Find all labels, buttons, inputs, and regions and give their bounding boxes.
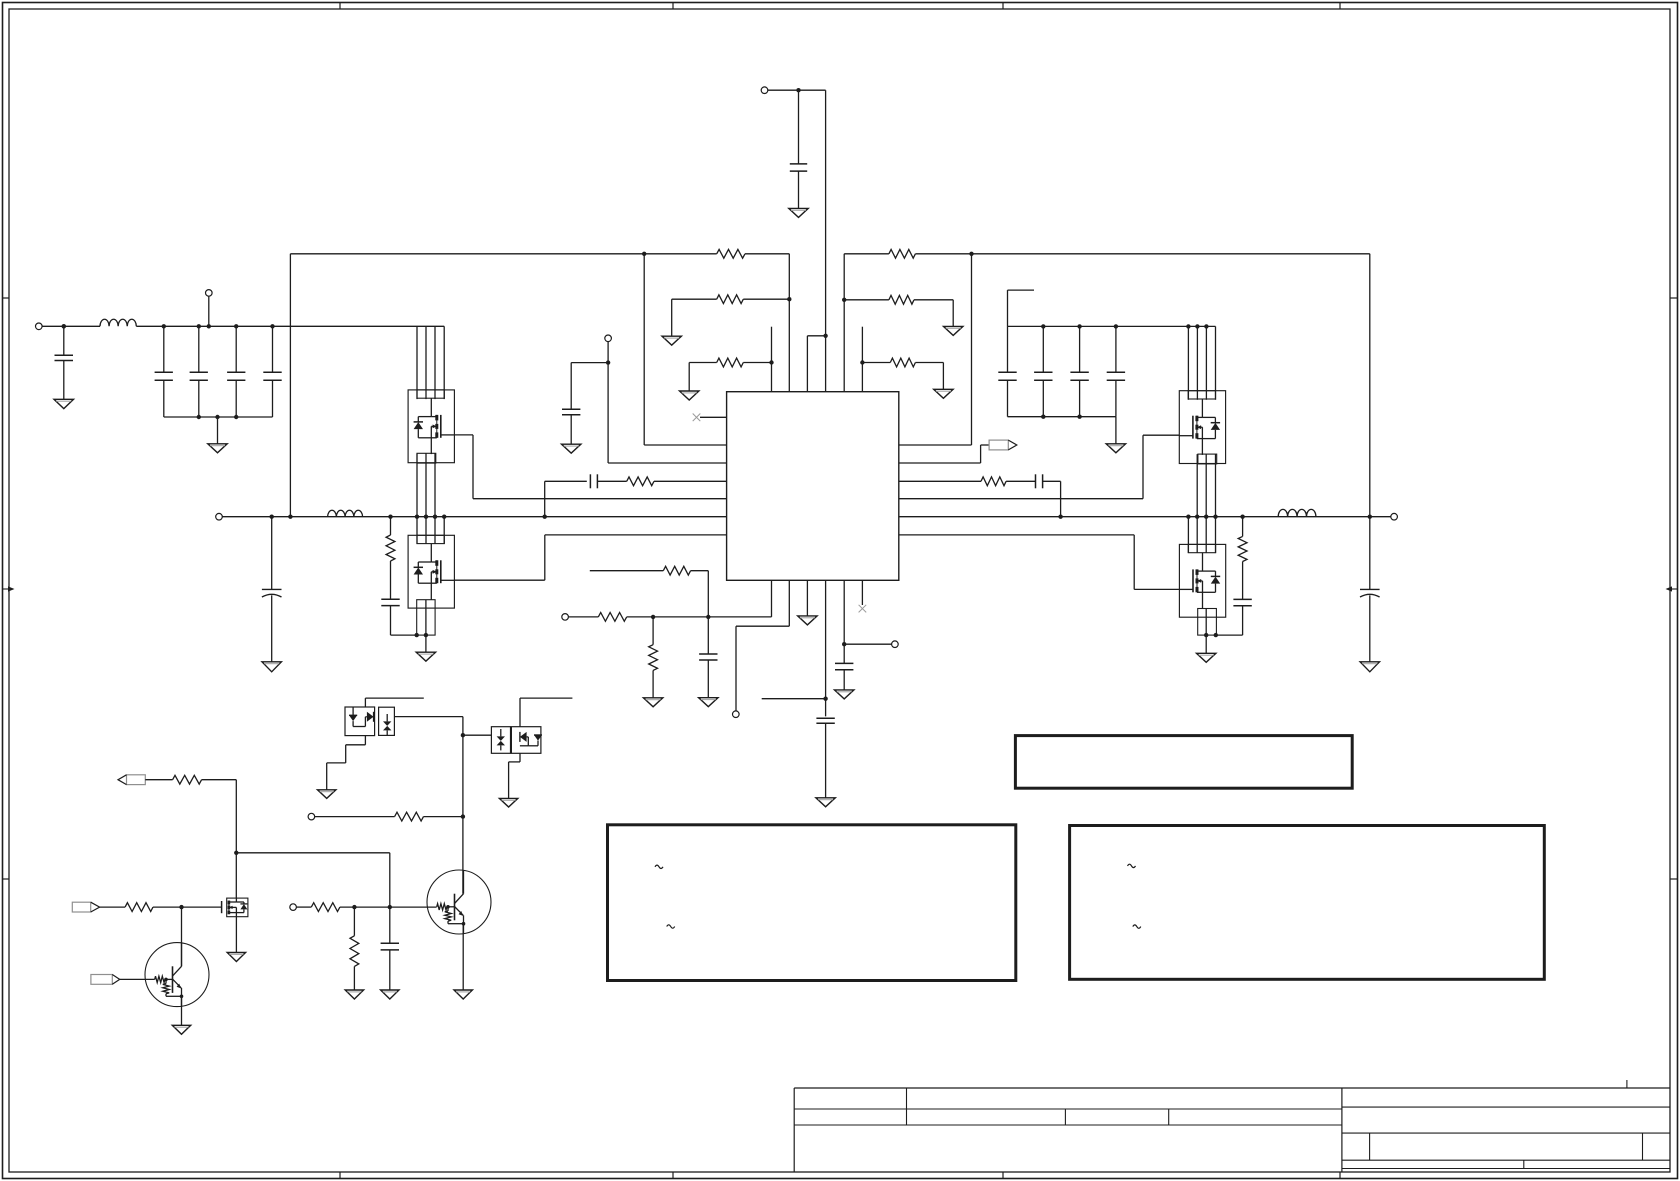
ground (below C-top) [789,208,808,217]
wire R to C right [1006,480,1036,482]
ground (right fet source) [1197,635,1216,662]
wire flag to R [145,779,172,781]
wire right bus stub [1008,290,1035,326]
wire step to pin t3 [807,336,825,392]
terminal (bus supply tap) [206,290,213,327]
node ref junction [606,360,610,364]
wire gate bottom-right [899,535,1180,590]
ground (R-b2) [345,990,363,999]
capacitor C-out-left (polarized) [262,517,282,662]
capacitor C-busL3 [227,326,245,417]
wire C to rail right [1043,481,1061,516]
capacitor C-busL4 [263,326,281,417]
wire r570 corner [691,571,709,617]
ground (row2 left) [662,336,681,345]
node t1 junction [769,360,773,364]
ground (left out) [262,662,281,672]
left fet source box [417,600,435,635]
node top-supply junction [796,88,800,92]
nodes on right bus bottom [1041,415,1082,419]
wire top rail right segment [844,253,889,255]
resistor R-snub-right [1238,536,1247,561]
diode pack D1 boxes [345,707,394,736]
resistor R-b1 [311,903,340,912]
wire Q2 emitter gnd [181,996,183,1025]
wire row3-left [689,363,771,392]
wire D2 top stub [520,698,572,727]
resistor R-fb-left [627,477,654,486]
resistor R-div-right-2 [889,295,914,304]
capacitor C-out-right (polarized) [1360,517,1380,662]
node Q3 coll j [461,814,465,818]
wire b5 to terminal [844,643,891,645]
wire F3 to R [99,906,126,908]
resistor R-fb-right-1 [889,249,916,258]
wire gate bottom-left [454,535,726,580]
node row617 j2 [706,615,710,619]
wire r-down leads [652,617,654,698]
wire IC pin b5 [843,580,845,663]
nodes on left input bus [62,324,275,328]
wire D1 top stub [365,698,423,707]
capacitor C-snub-left [381,561,416,635]
ground (row3 right) [934,389,953,398]
frame centerline arrow right [1666,586,1678,591]
ground (row2 right) [944,326,963,335]
transistor Q-top-right power FET block [1179,391,1225,464]
terminal (row617) [562,614,599,621]
wire Q-small source gnd [235,917,237,953]
ground (row617 c) [699,698,718,707]
wire row2-right [844,300,953,327]
node t6 junction [860,360,864,364]
node rail-left junction [642,252,646,256]
node right riser junction [1368,515,1372,519]
wire row3-right [862,363,943,390]
capacitor C-busR1 [998,326,1016,416]
capacitor C-b5 [835,663,853,690]
wire left fet mid wires [417,454,444,544]
ground (input shunt) [54,399,74,408]
wire rail-left vertical to IC pin [644,254,726,445]
resistor R-fb-right [981,477,1006,486]
diode pack D2 boxes [491,727,541,754]
wire top rail left segment [290,253,716,255]
wire Q3 emitter gnd [462,924,464,990]
resistor R-ctl [173,775,202,784]
capacitor C-617 [699,617,717,698]
resistor R-617-down [649,645,658,671]
node bias j2 [388,905,392,909]
nodes right rail fets [1058,515,1244,519]
wire Q3 collector rail [394,717,463,894]
note box left [608,825,1016,981]
flag (gate drive in) [72,902,99,912]
inductor L-in [100,319,136,326]
no-connect mark left [693,414,701,422]
wire D2 left [461,733,492,737]
ground (right bus) [1106,417,1125,453]
wire IC pin b1 [653,580,771,617]
terminal (ref mid-left) [605,335,612,363]
no-connect mark bottom [859,605,867,613]
wire IC pin b3 gnd [806,580,808,616]
terminal (top supply input) [761,87,825,94]
wire right rail [899,516,1370,518]
wire rb2 leads [353,907,355,990]
resistor R-570 [663,566,690,575]
wire left rail riser [289,254,291,517]
node bias j1 [352,905,356,909]
ground (C-ref) [562,444,581,453]
resistor R-snub-left [386,535,395,561]
wire right bus bottom [1008,416,1116,418]
capacitor C-busR3 [1070,326,1088,416]
resistor R-fb-left-1 [717,249,745,258]
flag (control out) [118,775,145,785]
ground (Q2) [172,1025,190,1034]
terminal (below IC) [733,711,740,718]
ground (D2) [499,798,517,807]
wire t1 vertical with stub [771,327,773,392]
wire R-g to gate [153,905,222,909]
wire F4 to Q2 [120,978,155,980]
wire top rail right to output corner [915,253,1369,255]
wire left fet drain wires [417,326,435,399]
wire left rail [272,516,727,518]
wire right fet drain wires [1188,326,1206,399]
wire right fet mid wires [1188,454,1215,553]
capacitor C-ref [562,363,608,445]
node pin-b4 junction [823,697,827,701]
wire D2 bottom step [509,753,520,798]
wire right bus [1008,326,1216,399]
terminal (pin b5) [892,641,899,648]
wire top-supply vertical [825,90,827,392]
node input junction [62,324,66,328]
diode pack D1 internals [349,707,391,735]
note box top-right [1015,736,1352,789]
wire ref to IC [608,363,727,463]
capacitor C-b [381,907,399,990]
ground (Q3) [454,990,472,999]
wire R-coll to rail [424,816,463,818]
tilde glyphs [655,864,1141,928]
ground (Q-small) [227,953,245,962]
resistor R-b2 [350,936,359,967]
capacitor C-b4 [816,718,834,798]
wire D1 bottom staircase [327,736,366,790]
terminal (speaker out right) [1370,513,1398,520]
wire t6 vertical with stub [861,327,863,392]
resistor R-div-right-3 [890,358,915,367]
ground (D1) [318,790,336,799]
ground (right out) [1360,662,1379,672]
flag (output mute) [899,440,1017,463]
terminal (bias in) [290,904,311,911]
wire left snubber leg [390,517,392,535]
transistor Q-top-left power FET block [408,390,454,463]
note box right [1070,826,1545,980]
wire IC pin b2 [736,580,789,711]
node t2 row2 junction [787,297,791,301]
ground (C-b5) [835,690,854,699]
nodes left fet source bus [415,633,429,637]
terminal (ctl bias) [308,813,395,820]
capacitor C-busR4 [1107,326,1125,416]
resistor R-div-left-3 [717,358,744,367]
frame centerline arrow left [3,586,15,591]
wire input bus [136,326,444,399]
terminal (audio input left) [36,323,101,330]
terminal (speaker out left) [216,513,272,520]
wire row2-left [672,299,790,336]
node rail-right junction [969,252,973,256]
capacitor C-busR2 [1034,326,1052,416]
wire rail-right vertical to IC pin [899,254,972,445]
node pin-b5 junction [842,642,846,646]
title block [794,1080,1670,1172]
ground (row3 left) [680,391,699,400]
wire r617 to junction [627,616,653,618]
capacitor C-top (supply decoupling) [790,90,807,208]
wire t5 vertical [843,254,845,392]
nodes left rail fets [388,515,547,519]
wire right rail riser [1369,254,1371,517]
capacitor C-busL2 [190,326,208,417]
capacitor C-fb-right [1036,474,1043,488]
ground (row617 r) [643,698,662,707]
wire stub 570 row [590,570,664,572]
node left riser junction [288,515,292,519]
node t4 split junction [823,334,827,338]
ground (IC pin b3) [798,616,817,625]
ground (left bus) [208,417,227,453]
wire ctl net [202,780,390,907]
wire R to IC left [654,480,727,482]
ground (left fet source) [416,635,435,661]
wire top rail left to corner [745,254,789,392]
capacitor C-busL1 [155,326,173,417]
wire stub 698 row [762,698,826,700]
wire Q2 collector [181,907,183,966]
capacitor C-fb-left [590,474,597,488]
diode pack D2 internals [497,729,542,750]
node row617 j1 [651,615,655,619]
wire left bus bottom [164,416,273,418]
right fet source box [1198,609,1217,636]
ground (C-b) [381,990,399,999]
wire bias net [340,906,437,908]
nodes right fet source bus [1204,633,1218,637]
flag (base drive in) [91,975,120,985]
capacitor C-in-shunt [55,326,74,399]
wire gate top-right [899,435,1180,499]
wire right snubber leg [1242,517,1244,537]
resistor R-g [125,903,153,912]
capacitor C-snub-right [1216,562,1251,636]
nodes on left bus bottom [197,415,239,419]
node left-out junction [270,515,274,519]
wire C to R left [597,480,626,482]
wire IC pin nc-left stub [700,416,727,418]
ground (C-b4) [816,798,835,807]
resistor R-617 [598,613,626,622]
inductor L-out-left [328,510,363,516]
resistor R-div-left-2 [717,295,744,304]
transistor Q-small MOSFET [222,898,248,917]
wire feedback row left [545,481,587,516]
resistor R-coll [395,812,424,821]
op-amp / class-D controller IC U1 [727,392,899,581]
transistor Q3 digital NPN [427,870,491,934]
transistor Q-bot-left power FET block [408,535,454,608]
inductor L-out-right [1278,509,1316,516]
node t5 row2 junction [842,298,846,302]
nodes on right bus [1041,324,1209,328]
wire feedback row right [899,480,981,482]
wire IC pin b6 stub [861,580,863,605]
transistor Q2 digital NPN [145,943,209,1007]
wire IC pin b4 [825,580,827,716]
transistor Q-bot-right power FET block [1179,544,1225,617]
wire gate top-left [454,435,726,499]
